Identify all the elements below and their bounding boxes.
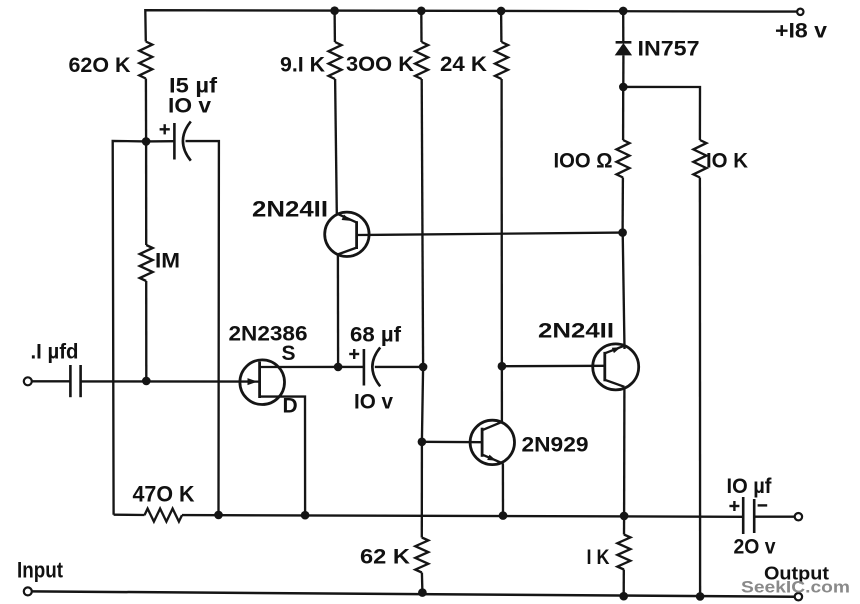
- svg-text:2N24II: 2N24II: [538, 320, 614, 343]
- svg-text:IO µf: IO µf: [727, 475, 773, 498]
- svg-text:SeekIC.com: SeekIC.com: [741, 579, 850, 597]
- svg-text:+I8 v: +I8 v: [775, 20, 827, 43]
- svg-text:62 K: 62 K: [360, 546, 410, 569]
- svg-text:Input: Input: [17, 558, 64, 583]
- svg-text:9.I K: 9.I K: [280, 54, 325, 77]
- svg-text:62O K: 62O K: [69, 54, 131, 77]
- svg-text:S: S: [282, 342, 296, 365]
- svg-text:IOO Ω: IOO Ω: [554, 150, 613, 173]
- svg-text:2N929: 2N929: [522, 434, 589, 457]
- svg-text:68 µf: 68 µf: [350, 324, 402, 347]
- svg-text:47O K: 47O K: [133, 482, 195, 507]
- svg-text:.I µfd: .I µfd: [31, 341, 79, 364]
- svg-text:2N24II: 2N24II: [252, 197, 328, 222]
- svg-text:IO K: IO K: [706, 150, 748, 173]
- svg-text:IO v: IO v: [168, 95, 211, 118]
- svg-text:IM: IM: [155, 250, 180, 273]
- svg-text:D: D: [283, 395, 298, 418]
- svg-text:2O v: 2O v: [734, 536, 776, 559]
- svg-text:IO v: IO v: [354, 391, 393, 414]
- svg-text:3OO K: 3OO K: [346, 53, 414, 76]
- svg-text:I K: I K: [587, 546, 610, 569]
- svg-text:24 K: 24 K: [440, 53, 487, 76]
- svg-text:IN757: IN757: [638, 38, 700, 61]
- svg-text:2N2386: 2N2386: [229, 323, 308, 346]
